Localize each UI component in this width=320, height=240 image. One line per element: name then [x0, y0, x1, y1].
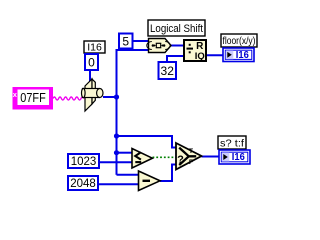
svg-text:2048: 2048	[70, 178, 96, 190]
svg-text:floor(x/y): floor(x/y)	[223, 35, 256, 47]
label Logical Shift	[148, 20, 205, 36]
wire: select output to s?t:f indicator	[202, 156, 220, 158]
svg-text:F: F	[189, 159, 193, 166]
wire: 2048 to subtract y input	[98, 183, 139, 185]
label floor(x/y)	[221, 34, 257, 47]
constant 2048	[68, 176, 98, 190]
indicator floor(x/y) I16	[223, 48, 254, 62]
svg-text:07FF: 07FF	[20, 91, 46, 105]
wire: 1023 to less-equal y input	[99, 161, 132, 163]
string constant 07FF	[13, 87, 54, 110]
wire: cast output to junction and down	[103, 97, 117, 175]
svg-text:IQ: IQ	[195, 51, 205, 62]
indicator s? t:f I16	[219, 150, 250, 164]
wire: string squiggle 07FF to cast	[53, 97, 84, 100]
type cast node	[82, 79, 104, 111]
wire: branch to less-equal x input	[117, 152, 133, 154]
subtract node	[139, 171, 161, 191]
svg-text:0: 0	[88, 56, 95, 70]
wire: shift output to quotient node	[171, 45, 184, 47]
select node	[176, 143, 202, 170]
svg-text:1023: 1023	[71, 156, 97, 168]
constant 1023	[68, 154, 99, 168]
wire: down branch into subtract top input	[117, 174, 139, 176]
wire: boolean dashed from less-equal to select s input	[153, 156, 177, 158]
svg-text:?: ?	[177, 154, 184, 166]
node: junction dot at cast output	[114, 94, 119, 99]
svg-text:I16: I16	[87, 42, 102, 54]
constant 32	[159, 62, 177, 79]
logical shift node	[147, 39, 171, 53]
wire: quotient IQ output to floor indicator	[206, 54, 223, 56]
constant 5	[119, 34, 133, 49]
svg-text:5: 5	[122, 35, 129, 49]
svg-text:I16: I16	[236, 50, 249, 61]
label I16	[84, 41, 105, 54]
wire: branch up to logical shift lower input	[117, 50, 149, 97]
wire: constant 5 to shift top input	[133, 40, 149, 42]
svg-text:I16: I16	[232, 152, 245, 163]
node: junction dot compare-branch	[114, 150, 119, 155]
svg-text:s? t:f: s? t:f	[220, 137, 244, 149]
wire: subtract output to select f input	[160, 165, 176, 182]
quotient &amp; remainder node	[184, 40, 206, 62]
node: junction dot t-branch	[114, 133, 119, 138]
wire: branch to select t input	[117, 136, 177, 148]
comparator less-equal node	[132, 149, 152, 169]
svg-text:Logical Shift: Logical Shift	[150, 23, 203, 35]
constant 0 (I16)	[85, 54, 98, 70]
label s? t:f	[218, 136, 246, 149]
svg-text:32: 32	[161, 64, 175, 78]
wire: constant 0 down into type cast	[89, 70, 91, 82]
wire: constant 32 up into quotient node	[167, 56, 184, 62]
